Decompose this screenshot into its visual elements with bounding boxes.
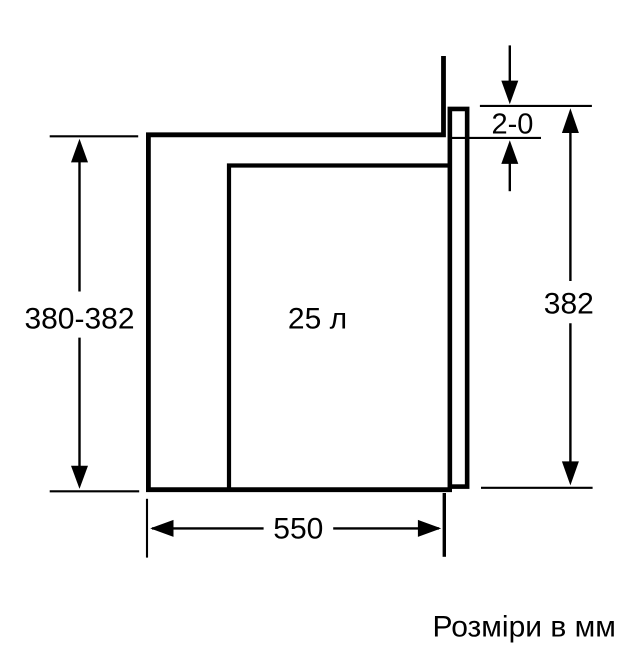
bottom dimension 550: right segment (333, 527, 439, 529)
svg-text:25 л: 25 л (288, 303, 347, 336)
svg-text:382: 382 (544, 288, 594, 321)
bottom dimension 550: left arrowhead (150, 520, 173, 537)
bottom dimension 550: left segment (152, 527, 264, 529)
right dimension 382: bottom extension line (481, 487, 593, 489)
svg-text:Розміри в мм: Розміри в мм (433, 610, 616, 643)
right dimension 382: upper shaft (569, 132, 571, 282)
left dimension 380-382: bottom extension line (50, 490, 140, 492)
left dimension 380-382: top extension line (50, 135, 139, 137)
bottom dimension 550: right arrowhead (418, 520, 441, 537)
right dimension 382: up arrowhead (562, 108, 579, 133)
bottom dimension 550: right extension line (443, 493, 446, 557)
right dimension 382: lower shaft (569, 323, 571, 463)
top dimension 2-0: upper arrow shaft (509, 45, 511, 83)
top dimension 2-0: up arrowhead (501, 140, 518, 164)
svg-text:550: 550 (273, 513, 323, 546)
top dimension 2-0: lower extension line (450, 137, 541, 139)
right dimension 382: down arrowhead (562, 461, 579, 485)
left dimension 380-382: down arrowhead (71, 466, 88, 489)
left dimension 380-382: lower shaft (78, 338, 80, 470)
cabinet niche outline (wall top line, top edge, left edge, bottom edge) (148, 56, 452, 490)
appliance front door panel (450, 109, 467, 487)
right dimension 382: top extension line (shared with 2-0) (480, 105, 592, 107)
bottom dimension 550: left extension line (146, 499, 148, 558)
left dimension 380-382: up arrowhead (71, 139, 88, 163)
svg-text:380-382: 380-382 (24, 303, 134, 336)
top dimension 2-0: down arrowhead (501, 81, 518, 105)
inner cavity outline (25 l) (229, 166, 452, 492)
svg-text:2-0: 2-0 (491, 109, 533, 141)
top dimension 2-0: lower arrow shaft (509, 163, 511, 191)
left dimension 380-382: upper shaft (78, 159, 80, 292)
